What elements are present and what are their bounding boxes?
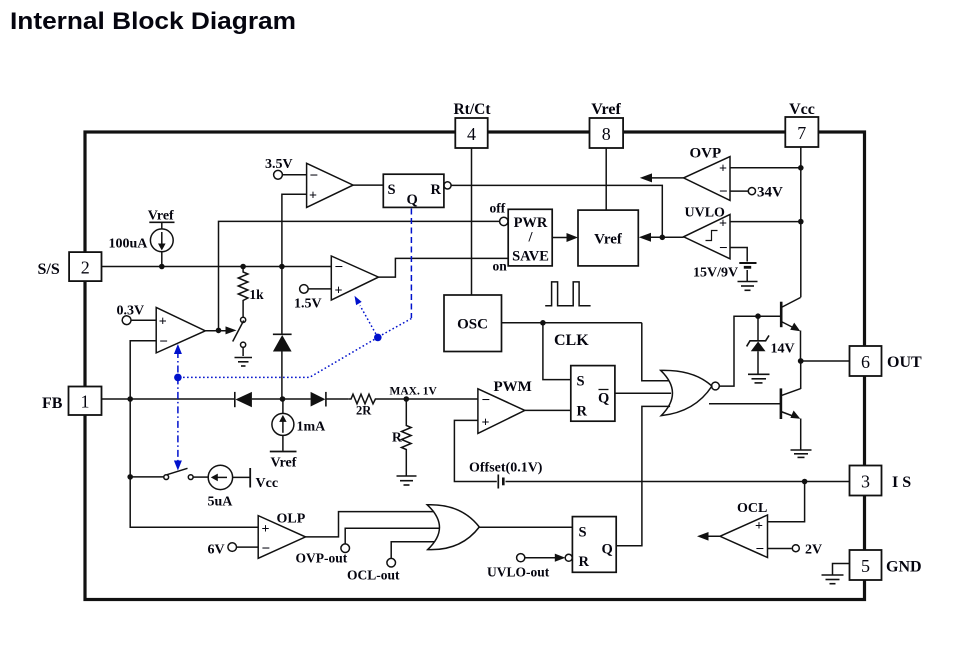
svg-text:+: + [262,522,270,537]
zener diode 14V [747,316,795,373]
wire PWR/SAVE to Vref with arrow [552,233,578,242]
wire CLK to NOR top input [642,323,669,381]
svg-text:S: S [577,374,585,390]
svg-text:2V: 2V [805,543,822,558]
wire latch3 Q up to NOR bottom input [616,406,670,545]
wire UVLO plus input to Vcc rail [730,221,801,223]
svg-text:SAVE: SAVE [512,249,549,265]
wire Q2 base from NOR edge [709,403,781,405]
block PWR/SAVE [490,201,553,274]
svg-text:+: + [755,519,763,534]
pin 6 OUT [850,346,923,376]
node 6V terminal [208,543,259,558]
switch SW1 below 1k [233,306,246,356]
wire NOR output to T1 base [719,316,781,386]
svg-text:−: − [159,334,168,350]
node FB junction at R [404,396,410,402]
wire 0.3V comp minus input down to FB line [130,341,156,399]
ground below 15V/9V battery [738,282,758,291]
wire OLP output to OR gate top input [306,512,435,537]
wire blue dotted to left node [178,337,378,377]
wire PWM plus input to offset battery [454,420,496,481]
svg-text:on: on [493,259,508,274]
node 34V terminal [730,185,783,201]
svg-text:+: + [482,416,490,431]
wire OUT node to pin 6 [801,360,850,362]
svg-text:+: + [335,284,343,299]
wire blue dashed from latch1 Q [410,209,412,319]
svg-text:R: R [579,554,590,570]
node S/S junction at 100uA [159,264,165,270]
svg-text:2R: 2R [356,403,372,417]
wire blue dotted arrow to 1.5V opamp [355,296,378,338]
svg-text:−: − [719,184,728,200]
node comp output junction [216,328,222,334]
node FB junction at 1mA [280,396,286,402]
svg-text:Q: Q [598,391,609,407]
svg-text:OVP-out: OVP-out [296,551,348,566]
svg-text:off: off [490,201,506,216]
svg-text:0.3V: 0.3V [117,303,145,318]
node OCL-out terminal [347,542,435,583]
wire comp1 output to latch [353,184,383,186]
svg-text:PWM: PWM [494,379,532,395]
svg-text:OUT: OUT [887,354,922,371]
svg-text:3: 3 [861,472,870,492]
current source 5uA to Vcc [208,465,279,509]
node zener tap junction [755,313,761,319]
block OSC [444,295,502,352]
svg-text:4: 4 [467,124,476,144]
svg-text:GND: GND [886,559,922,576]
wire 0.3V comp output to switch with arrow [205,326,236,334]
svg-text:+: + [159,315,167,330]
node UVLO-out terminal with arrow into latch3 R [487,554,572,580]
pin 1 FB [42,387,102,416]
node 3.5V terminal [265,157,307,179]
svg-text:Vref: Vref [591,101,621,118]
svg-text:5: 5 [861,556,870,576]
node OSC output junction [540,320,546,326]
svg-text:OSC: OSC [457,317,488,333]
wire OSC output [502,322,642,324]
ground below R [397,476,417,485]
node blue junction [374,334,382,342]
wire blue dotted diagonal to node [379,319,411,337]
wire OCL output arrow [697,532,720,541]
pin 4 Rt/Ct [453,101,491,148]
wire latch1 R output to UVLO output node [451,185,662,237]
svg-text:+: + [309,189,317,204]
svg-text:Vcc: Vcc [256,476,279,491]
battery Offset(0.1V) [469,461,543,489]
ground at pin 5 GND [822,564,850,584]
svg-text:FB: FB [42,395,63,412]
node blue junction left [174,374,182,382]
svg-text:R: R [392,430,402,445]
svg-text:100uA: 100uA [109,237,149,252]
wire OR output to latch3 S [478,526,572,528]
node 2V terminal [768,543,823,558]
latch U2 SR (S Qbar R) [571,366,615,422]
wire IS line from battery to pin 3 [506,481,850,483]
svg-text:15V/9V: 15V/9V [693,266,738,281]
node 1.5V terminal [294,285,331,312]
node OUT junction [798,358,804,364]
latch U1 SR (S Q R) [383,174,451,208]
ground below SW1 [235,358,253,367]
pin 7 Vcc [785,101,818,147]
node UVLO output junction [660,235,666,241]
wire FB line [102,398,235,400]
diode D1 pointing left [235,392,311,407]
svg-text:Q: Q [602,542,613,558]
pin 8 Vref [590,101,624,148]
svg-text:CLK: CLK [554,332,589,349]
svg-text:UVLO-out: UVLO-out [487,565,550,580]
wire OUT node down to Q2 collector [800,361,802,389]
svg-text:R: R [431,182,442,198]
node OVP-out terminal [296,528,440,565]
wire blue dash-dot vertical with down arrow [174,377,182,470]
svg-text:1k: 1k [249,287,264,302]
wire OCL plus input to IS node [768,482,805,522]
wire FB node down to 5uA switch and OLP [130,399,258,527]
svg-text:S/S: S/S [38,261,60,278]
pin 2 S/S [38,252,102,281]
op-amp 3.5V comparator [307,163,354,207]
resistor 1k [238,267,264,307]
pin 5 GND [850,550,922,580]
svg-text:2: 2 [81,258,90,278]
svg-text:+: + [719,162,727,177]
svg-text:S: S [579,525,587,541]
svg-text:6V: 6V [208,543,225,558]
svg-text:Internal Block Diagram: Internal Block Diagram [10,8,296,35]
op-amp PWM comparator [478,379,532,433]
svg-text:R: R [577,404,588,420]
node 0.3V terminal [117,303,157,324]
wire 3.5V comp plus input down to S/S line [282,194,307,266]
wire CLK to latch2 S input [543,323,571,380]
transistor Q1 output upper [781,297,801,361]
latch U3 SR (S Q R) [572,517,616,573]
wire OVP output with left arrow [640,173,684,182]
op-amp OVP comparator [684,146,730,201]
svg-text:Offset(0.1V): Offset(0.1V) [469,461,543,476]
transistor Q2 output lower [781,388,801,449]
wire blue dash-dot vertical with up arrow [174,344,182,377]
svg-text:1: 1 [81,392,90,412]
svg-text:14V: 14V [771,342,795,357]
gate NOR [661,370,720,415]
svg-text:S: S [388,182,396,198]
op-amp 0.3V comparator [156,307,205,353]
svg-text:1mA: 1mA [297,420,327,435]
svg-text:8: 8 [602,124,611,144]
svg-text:Vref: Vref [271,456,297,471]
svg-text:5uA: 5uA [208,495,234,510]
diode D3 FB to S/S [273,267,292,400]
svg-text:UVLO: UVLO [685,206,726,221]
op-amp 1.5V error amp [331,256,378,300]
op-amp OLP comparator [258,512,306,559]
IC outer boundary box [85,132,865,600]
svg-text:−: − [262,541,271,557]
wire pin7 Vcc rail down to T1 collector [800,147,802,297]
svg-text:−: − [719,241,728,257]
svg-text:−: − [310,168,319,184]
wire pin4 to OSC [471,148,473,295]
svg-text:−: − [482,393,491,409]
node Vcc-OVP junction [798,165,804,171]
svg-text:Vcc: Vcc [789,101,815,118]
switch SW2 5uA path [130,468,208,479]
svg-text:6: 6 [861,352,870,372]
node S/S junction at comparator branch [279,264,285,270]
svg-text:OVP: OVP [690,146,722,162]
wire UVLO output into Vref box with arrow [639,233,684,242]
svg-text:−: − [335,260,344,276]
node IS junction [802,479,808,485]
gate OR shutdown [427,505,479,550]
svg-text:34V: 34V [757,185,783,201]
svg-text:Vref: Vref [594,232,623,248]
svg-text:MAX. 1V: MAX. 1V [390,385,438,397]
ground below zener [748,374,770,383]
svg-text:OLP: OLP [277,512,306,527]
resistor R vertical [392,399,411,476]
node FB junction left [127,396,133,402]
svg-text:Rt/Ct: Rt/Ct [453,101,491,118]
pin 3 IS [850,466,912,496]
wire off line from 0.3V comp output [219,221,500,330]
wire latch2 Qbar to NOR middle input [615,392,671,394]
waveform clock pulses [545,282,590,306]
svg-text:1.5V: 1.5V [294,296,322,311]
resistor 2R horizontal [349,394,478,417]
svg-text:Q: Q [407,192,418,208]
ground below Q2 emitter [791,450,812,457]
node S/S junction at 1k [240,264,246,270]
svg-text:−: − [756,542,765,558]
node FB lower junction [127,474,133,480]
wire PWM output to latch2 R [525,409,571,411]
diode D2 pointing right [311,392,349,407]
wire OVP plus input to Vcc rail [730,167,801,169]
block Vref regulator [578,210,638,266]
svg-text:I S: I S [892,474,911,491]
svg-text:7: 7 [797,123,806,143]
op-amp UVLO comparator [684,206,730,259]
node off terminal circle [500,217,508,225]
svg-text:OCL-out: OCL-out [347,568,400,583]
op-amp OCL comparator [720,501,768,558]
wire S/S line [102,266,332,268]
svg-text:Vref: Vref [148,209,174,224]
wire pin8 to Vref box [605,148,607,210]
battery 15V/9V [693,248,757,282]
node Vcc-UVLO junction [798,219,804,225]
current source 1mA with Vref return [270,399,326,471]
current source 100uA with Vref supply [109,209,175,267]
wire on line from 1.5V opamp output [379,258,509,277]
svg-text:OCL: OCL [737,501,767,516]
